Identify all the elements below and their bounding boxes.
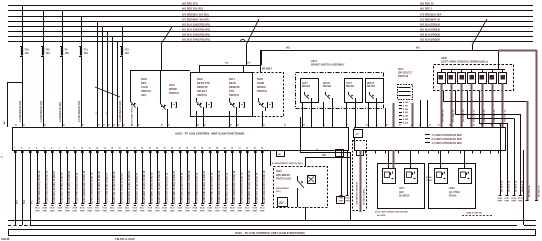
wire F6 load side down to A010 <box>62 56 64 127</box>
switch S009 <box>130 98 132 101</box>
wire bottom bus upper y=220.5 <box>8 220 536 222</box>
svg-text:32: 32 <box>246 148 248 150</box>
svg-text:42-942 GRN 18 (R) 30 RD 18: 42-942 GRN 18 (R) 30 RD 18 <box>91 172 94 204</box>
wire right box to relay 2 <box>410 150 412 168</box>
wire tap from bus at x=22 <box>22 6 24 47</box>
svg-text:J2: J2 <box>204 125 206 127</box>
wire A010 pin 18 output <box>142 150 144 203</box>
terminal end wire 30 <box>231 203 234 205</box>
svg-text:TWR: TWR <box>345 200 350 202</box>
svg-text:J2: J2 <box>438 125 440 127</box>
svg-text:10A: 10A <box>84 52 89 55</box>
svg-text:74.: 74. <box>316 149 320 152</box>
wire A010 pin 19 output <box>150 150 152 203</box>
svg-text:45-983 BLU 18 (R) 30 RD 18: 45-983 BLU 18 (R) 30 RD 18 <box>226 172 229 204</box>
wire riser below right slash <box>472 45 474 50</box>
svg-text:J2: J2 <box>399 125 401 127</box>
wire A010 pin 2 output <box>22 150 24 225</box>
pin connector mark wire 5 <box>44 151 47 153</box>
wire A010 pin 17 output <box>135 150 137 203</box>
svg-text:4 964: 4 964 <box>403 115 409 118</box>
svg-text:42-926 WHT 18 (R) 30 RD 18: 42-926 WHT 18 (R) 30 RD 18 <box>151 172 154 204</box>
wire collector y=114 <box>455 114 521 116</box>
svg-text:6: 6 <box>51 148 52 150</box>
terminal end wire 24 <box>186 203 189 205</box>
svg-text:44-935 GRY 18 (HC) 30 RD 18: 44-935 GRY 18 (HC) 30 RD 18 <box>158 170 161 204</box>
terminal end wire 12 <box>96 203 99 205</box>
wire A010 pin 27 output <box>210 150 212 203</box>
svg-text:A083: A083 <box>449 187 455 190</box>
svg-text:TWR: TWR <box>177 210 182 212</box>
wire console switch 1 drop <box>441 84 443 128</box>
svg-text:PEDAL: PEDAL <box>449 195 457 198</box>
svg-text:BRAKE: BRAKE <box>346 85 355 88</box>
fuse F14 <box>79 46 82 48</box>
wire far right thick drop <box>536 50 538 200</box>
wire A010 pin 24 output <box>187 150 189 203</box>
svg-text:971 RED/WHT 30: 971 RED/WHT 30 <box>420 19 441 22</box>
svg-text:44-962 ORG 18 (HC) 30 RD 18: 44-962 ORG 18 (HC) 30 RD 18 <box>38 170 41 204</box>
pin connector mark wire 30 <box>231 151 234 153</box>
wire 960 horizontal <box>305 157 351 159</box>
wire brake switch drop x=311 <box>311 102 313 127</box>
pin connector mark wire 28 <box>216 151 219 153</box>
wire vertical x=350 to bottom bus <box>350 152 352 221</box>
svg-text:7: 7 <box>59 148 60 150</box>
terminal end far right <box>535 200 538 202</box>
svg-text:LOAD: LOAD <box>426 179 432 182</box>
svg-text:DIFF: DIFF <box>141 82 147 85</box>
svg-text:23: 23 <box>179 148 181 150</box>
svg-text:9: 9 <box>74 148 75 150</box>
svg-text:J2: J2 <box>481 125 483 127</box>
svg-text:10A: 10A <box>46 52 51 55</box>
terminal end wire 13 <box>103 203 106 205</box>
terminal end wire 16 <box>126 203 129 205</box>
svg-text:SWITCH): SWITCH) <box>398 75 408 78</box>
svg-text:40 IMPLEMENT SWITCH (MC): 40 IMPLEMENT SWITCH (MC) <box>272 162 303 165</box>
wire A010 pin 26 output <box>202 150 204 203</box>
svg-text:BRAKE SWITCH ASSEMBLY: BRAKE SWITCH ASSEMBLY <box>311 64 345 67</box>
switch S008 <box>258 98 260 101</box>
wire cluster tap 5 <box>117 42 119 128</box>
svg-text:4 966: 4 966 <box>403 121 409 124</box>
svg-text:SWITCH (HC): SWITCH (HC) <box>276 178 291 181</box>
svg-text:J2: J2 <box>15 125 17 127</box>
switch S071 <box>229 98 231 101</box>
svg-text:J2: J2 <box>168 125 170 127</box>
terminal end wire 29 <box>223 203 226 205</box>
wire bottom bus lower y=225 <box>31 225 517 227</box>
wire A010 pin 15 output <box>120 150 122 203</box>
pin connector mark wire 27 <box>209 151 212 153</box>
pin connector mark wire 18 <box>141 151 144 153</box>
svg-text:SWITCH: SWITCH <box>169 92 179 95</box>
svg-text:960 RED 14 (HC): 960 RED 14 (HC) <box>363 188 366 205</box>
pin right box top x=472 <box>472 150 474 154</box>
svg-text:44-915 BLK 18 (HC) 30 RD 18: 44-915 BLK 18 (HC) 30 RD 18 <box>128 171 131 204</box>
pin connector mark wire 10 <box>81 151 84 153</box>
terminal end wire 19 <box>148 203 151 205</box>
pin right box top x=480 <box>480 150 482 154</box>
wire bus line 972 RED/BLK 30A <box>8 16 533 18</box>
wire switch-group pin x=262 to A010 <box>262 111 264 127</box>
wire crossover slash left <box>161 27 172 44</box>
svg-text:44-915 RED 18 (HC): 44-915 RED 18 (HC) <box>119 100 122 122</box>
pin right box top x=418 <box>418 150 420 154</box>
svg-text:(HC): (HC) <box>276 191 281 193</box>
svg-text:10: 10 <box>81 148 83 150</box>
connector J4 below A010 <box>277 151 285 157</box>
svg-text:TWR: TWR <box>207 210 212 212</box>
svg-text:TWR: TWR <box>50 210 55 212</box>
svg-text:44-922 PUR 18 (HC) 30 RD 18: 44-922 PUR 18 (HC) 30 RD 18 <box>68 170 71 204</box>
wire bus line 952 BLK 30A(GRD) <box>8 26 533 28</box>
svg-text:SELECT: SELECT <box>197 90 207 93</box>
svg-text:45-956 BRN 18 (R) 30 RD 18: 45-956 BRN 18 (R) 30 RD 18 <box>196 172 199 204</box>
svg-text:20: 20 <box>156 148 158 150</box>
wire brake switch drop x=355 <box>355 102 357 127</box>
svg-text:44-914 RED 18 (HC): 44-914 RED 18 (HC) <box>78 100 81 122</box>
wire switch-group pin x=229 to A010 <box>229 111 231 127</box>
svg-text:TWR: TWR <box>147 210 152 212</box>
wire F15 load side down to A010 <box>122 56 124 127</box>
svg-text:SWITCH: SWITCH <box>229 94 239 97</box>
svg-text:J2: J2 <box>103 125 105 127</box>
connector A6 at strip crossing <box>354 130 363 138</box>
svg-text:.1 CAB/PLATFORM 960 RED: .1 CAB/PLATFORM 960 RED <box>431 134 462 137</box>
terminal end wire 6 <box>51 203 54 205</box>
wire console switch 3 drop <box>461 84 463 128</box>
svg-text:961: 961 <box>286 47 291 50</box>
terminal end 36 <box>340 195 343 197</box>
linkage marks S071 <box>239 102 241 108</box>
linkage marks S007 <box>171 102 173 108</box>
wire A010 pin 23 output <box>180 150 182 203</box>
svg-text:45-996 GRY 18 (R) 30 RD 18: 45-996 GRY 18 (R) 30 RD 18 <box>256 172 259 204</box>
wire collector y=101 <box>443 101 527 103</box>
svg-text:41-925 WHT 18 (RC) 30 RD 18: 41-925 WHT 18 (RC) 30 RD 18 <box>143 170 146 204</box>
svg-text:S020: S020 <box>197 78 203 81</box>
pin connector mark wire 8 <box>66 151 69 153</box>
svg-text:931 BLK 30A(GRD) (R1): 931 BLK 30A(GRD) (R1) <box>182 39 210 42</box>
pin connector mark wire 13 <box>104 151 107 153</box>
wire S007 drop <box>160 71 162 101</box>
terminal end wire 10 <box>81 203 84 205</box>
wire A010 pin 30 output <box>232 150 234 203</box>
pin connector mark wire 19 <box>149 151 152 153</box>
pin right box top x=490 <box>490 150 492 154</box>
boundary dashed bottom <box>353 210 367 212</box>
relay K1 in A077 <box>383 169 396 184</box>
wire A010 pin 8 output <box>67 150 69 203</box>
svg-text:J2: J2 <box>449 125 451 127</box>
svg-text:3: 3 <box>29 148 30 150</box>
svg-text:22: 22 <box>279 201 283 205</box>
wire A010 pin 5 output <box>45 150 47 203</box>
wire drop 961 into switch box <box>199 65 201 72</box>
wire riser below middle slash <box>246 45 248 65</box>
svg-text:4 960: 4 960 <box>403 101 409 104</box>
svg-text:J2: J2 <box>161 125 163 127</box>
svg-text:S007: S007 <box>169 84 175 87</box>
pin connector mark wire 15 <box>119 151 122 153</box>
svg-text:42-946 RED 18 (R) 30 RD 18: 42-946 RED 18 (R) 30 RD 18 <box>181 172 184 204</box>
svg-text:41-915 ORG 18 (RC) 30 RD 18: 41-915 ORG 18 (RC) 30 RD 18 <box>263 170 266 204</box>
wire console switch 4 drop <box>471 84 473 128</box>
svg-text:TWR: TWR <box>72 210 77 212</box>
svg-text:J2: J2 <box>263 125 265 127</box>
terminal end wire 25 <box>193 203 196 205</box>
terminal end wire 33 <box>253 203 256 205</box>
terminal end wire 22 <box>171 203 174 205</box>
svg-text:44-982 ORG 18 (HC) 30 RD 18: 44-982 ORG 18 (HC) 30 RD 18 <box>218 170 221 204</box>
svg-text:5: 5 <box>44 148 45 150</box>
terminal end wire 4 <box>36 203 39 205</box>
svg-text:962 RED (R1): 962 RED (R1) <box>182 3 198 6</box>
svg-text:42-966 PNK 18 (R) 30 RD 18: 42-966 PNK 18 (R) 30 RD 18 <box>211 172 214 204</box>
svg-text:J2: J2 <box>284 125 286 127</box>
svg-text:J2: J2 <box>197 125 199 127</box>
svg-text:44-972 TAN 18 (HC) 30 RD 18: 44-972 TAN 18 (HC) 30 RD 18 <box>98 171 101 204</box>
svg-text:J2: J2 <box>366 125 368 127</box>
svg-text:41-945 RED 18 (RC) 30 RD 18: 41-945 RED 18 (RC) 30 RD 18 <box>173 170 176 204</box>
svg-text:972 RED/BLK 30A: 972 RED/BLK 30A <box>420 14 441 17</box>
jumper note labels in right box <box>425 134 430 136</box>
wire DP switch drop 2 <box>427 100 429 127</box>
wire A010 pin 28 output <box>217 150 219 203</box>
svg-text:J2: J2 <box>98 125 100 127</box>
terminal end wire 7 <box>58 203 61 205</box>
wire brake switch drop x=323 <box>323 102 325 127</box>
svg-text:(CLUTCH): (CLUTCH) <box>449 192 460 194</box>
svg-text:(DP SELECT: (DP SELECT <box>398 72 413 75</box>
terminal end wire 34 <box>261 203 264 205</box>
svg-text:A077: A077 <box>399 187 405 190</box>
svg-text:REMOTE: REMOTE <box>197 86 208 89</box>
svg-text:22: 22 <box>171 148 173 150</box>
pin connector mark wire 25 <box>194 151 197 153</box>
svg-text:J2: J2 <box>323 125 325 127</box>
svg-text:28: 28 <box>216 148 218 150</box>
wire bus line 971 RED/WHT 30A <box>8 21 533 23</box>
svg-text:J2: J2 <box>491 125 493 127</box>
svg-text:1: 1 <box>14 148 15 150</box>
pin connector mark wire 14 <box>111 151 114 153</box>
svg-text:961 RED 14: 961 RED 14 <box>538 185 541 197</box>
wire A010 pin 20 output <box>157 150 159 203</box>
svg-text:TWR: TWR <box>95 210 100 212</box>
wire bus line 962 RED <box>8 5 533 7</box>
wire S043 lever drop <box>297 188 299 207</box>
wire riser from crossover slash to switch feed <box>161 44 163 71</box>
crossover hop on bus line 8 <box>241 39 245 41</box>
wire A010 pin 9 output <box>75 150 77 203</box>
pin right box top x=428 <box>428 150 430 154</box>
wire right column 1 <box>500 123 502 195</box>
svg-text:961 RED 1: 961 RED 1 <box>420 8 433 11</box>
terminal end right column 1 <box>499 195 502 197</box>
boundary dashed top <box>353 140 367 142</box>
svg-text:TWR: TWR <box>132 210 137 212</box>
svg-text:TWR: TWR <box>57 210 62 212</box>
svg-text:J2: J2 <box>23 125 25 127</box>
svg-text:41-975 YEL 18 (RC) 30 RD 18: 41-975 YEL 18 (RC) 30 RD 18 <box>113 171 116 204</box>
ground stud icon 22 <box>278 198 288 207</box>
svg-text:TWR: TWR <box>252 210 257 212</box>
wire assembly aux drop thick 1 <box>393 103 395 127</box>
label leader diagonal for cluster <box>95 87 120 97</box>
fuse F6 <box>60 46 63 48</box>
svg-text:17: 17 <box>134 148 136 150</box>
svg-text:TWR: TWR <box>125 210 130 212</box>
svg-text:TWR: TWR <box>222 210 227 212</box>
svg-text:30: 30 <box>231 148 233 150</box>
svg-text:LEFT: LEFT <box>346 83 352 85</box>
terminal end collector right <box>525 200 528 202</box>
terminal end right column 4 <box>519 195 522 197</box>
svg-text:29: 29 <box>224 148 226 150</box>
svg-text:TWR: TWR <box>162 210 167 212</box>
wire right box to relay 1b thick <box>393 150 395 168</box>
svg-text:J2: J2 <box>461 125 463 127</box>
wire S009 feed from bus <box>130 70 190 72</box>
svg-text:TWR: TWR <box>42 210 47 212</box>
wire A010 pin 25 output <box>195 150 197 203</box>
svg-text:963 ORG 18: 963 ORG 18 <box>474 109 476 122</box>
svg-text:TM-781 A-5010: TM-781 A-5010 <box>115 237 135 241</box>
svg-text:(HC): (HC) <box>399 192 404 194</box>
relay K4 in A083 <box>459 169 472 184</box>
wire right column 3 <box>514 119 516 196</box>
pin right box top x=498 <box>498 150 500 154</box>
svg-text:TWR: TWR <box>518 201 523 203</box>
svg-text:931 BLK(GRD)30: 931 BLK(GRD)30 <box>420 39 441 42</box>
svg-text:A010 CAB CONNECTOR 960 RED: A010 CAB CONNECTOR 960 RED <box>375 211 408 214</box>
svg-text:A010 - TF CAB CONTROL UNIT (CA: A010 - TF CAB CONTROL UNIT (CAB FUNCTION… <box>175 132 244 136</box>
svg-text:TWR: TWR <box>170 210 175 212</box>
wire A010 pin 36 <box>341 150 343 195</box>
wire tap from bus at x=43 <box>43 11 45 47</box>
svg-text:RIGHT: RIGHT <box>367 83 375 85</box>
pin connector mark wire 1 <box>14 151 17 153</box>
wire A010 pin 32 output <box>247 150 249 203</box>
pin right box top x=448 <box>448 150 450 154</box>
wire brake switch drop x=368 <box>368 102 370 127</box>
boundary cab harness dashed line left <box>352 140 354 210</box>
terminal end wire 23 <box>178 203 181 205</box>
svg-text:J2: J2 <box>473 125 475 127</box>
fuse F25 <box>41 46 44 48</box>
wire brake switch drop x=376 <box>376 102 378 127</box>
svg-text:BRAKE: BRAKE <box>257 86 266 89</box>
svg-text:41-992 GRN 18 (RC) 30 RD 18: 41-992 GRN 18 (RC) 30 RD 18 <box>233 170 236 204</box>
svg-text:IMPLEMENT: IMPLEMENT <box>276 188 290 190</box>
wire console switch 6 drop <box>492 84 494 128</box>
svg-text:44-925 RED 18 (HC): 44-925 RED 18 (HC) <box>40 100 43 122</box>
svg-text:11: 11 <box>89 148 91 150</box>
terminal end wire 9 <box>73 203 76 205</box>
wire switch-group pin x=236 to A010 <box>236 111 238 127</box>
terminal end wire 5 <box>43 203 46 205</box>
svg-text:TWR: TWR <box>237 210 242 212</box>
svg-text:10A: 10A <box>65 52 70 55</box>
wire brake switch drop x=302 <box>302 102 304 127</box>
wire 74 horizontal <box>300 152 351 154</box>
wire S043 to bottom bus <box>305 207 307 221</box>
svg-text:12: 12 <box>96 148 98 150</box>
fuse F15 <box>120 46 123 48</box>
connector console switch 4 <box>468 73 476 84</box>
terminal end wire 17 <box>133 203 136 205</box>
svg-text:19: 19 <box>149 148 151 150</box>
svg-text:J2: J2 <box>123 125 125 127</box>
switch DP select ladder <box>398 85 413 100</box>
wire A010 pin 13 output <box>105 150 107 203</box>
svg-text:TWR: TWR <box>102 210 107 212</box>
svg-text:13: 13 <box>104 148 106 150</box>
box pedal group A083 <box>429 164 476 209</box>
pin connector mark wire 3 <box>29 151 32 153</box>
svg-text:S008: S008 <box>257 78 263 81</box>
svg-text:CAB WIRING HARNESS: CAB WIRING HARNESS <box>356 181 359 205</box>
svg-text:962 RED 14: 962 RED 14 <box>528 185 531 197</box>
connector console switch 7 <box>499 73 507 84</box>
svg-text:964 ORG 18: 964 ORG 18 <box>483 109 486 122</box>
connector console switch 3 <box>458 73 466 84</box>
wire far right feed corner <box>498 50 537 52</box>
wire cluster tap 2 <box>102 27 104 128</box>
svg-text:LEFT: LEFT <box>302 83 308 85</box>
svg-text:951 BLK 30A(GRD) (R1): 951 BLK 30A(GRD) (R1) <box>182 29 210 32</box>
wire bus line 931 BLK 30A(GRD) <box>8 41 533 43</box>
wire S009 to A010 <box>137 107 139 127</box>
svg-text:J2: J2 <box>346 125 348 127</box>
svg-text:972 RED/BLK 30A (R1): 972 RED/BLK 30A (R1) <box>182 14 209 17</box>
svg-text:K010 - TH CAB CONTROL UNIT (CA: K010 - TH CAB CONTROL UNIT (CAB FUNCTION… <box>235 231 305 235</box>
svg-text:TWR: TWR <box>339 200 344 202</box>
terminal end wire 27 <box>208 203 211 205</box>
pin connector mark wire 12 <box>96 151 99 153</box>
wire riser implement switch to 960 <box>305 157 307 166</box>
svg-text:44-928 RED 18 (HC): 44-928 RED 18 (HC) <box>19 100 22 122</box>
svg-text:41-914 GRN 18 (HC) 30 RD 18: 41-914 GRN 18 (HC) 30 RD 18 <box>83 170 86 204</box>
svg-text:J2: J2 <box>44 125 46 127</box>
pin connector mark wire 21 <box>164 151 167 153</box>
svg-text:TWR: TWR <box>110 210 115 212</box>
svg-text:4 963: 4 963 <box>403 111 409 114</box>
wire tap from bus at x=62 <box>62 11 64 47</box>
svg-text:J2: J2 <box>63 125 65 127</box>
svg-text:961 RED 30A (R1): 961 RED 30A (R1) <box>182 8 203 11</box>
box rear PTO switch group (solid part) <box>191 73 253 117</box>
pin right box top x=460 <box>460 150 462 154</box>
svg-text:PEAK: PEAK <box>426 176 432 179</box>
fuse F28 <box>20 46 23 48</box>
svg-text:J2: J2 <box>138 125 140 127</box>
box pedal group A077 <box>378 164 425 209</box>
svg-text:961: 961 <box>416 47 421 50</box>
wire crossover slash right <box>472 19 487 45</box>
wire DP switch drop 1 <box>420 100 422 127</box>
svg-text:.1 CAB/PLATFORM 961 RED: .1 CAB/PLATFORM 961 RED <box>431 138 462 141</box>
terminal end wire 11 <box>88 203 91 205</box>
svg-text:J2: J2 <box>108 125 110 127</box>
connector console switch 5 <box>479 73 487 84</box>
svg-text:TWR: TWR <box>215 210 220 212</box>
wire A010 pin 1 output <box>15 150 17 225</box>
wire F28 load side down to A010 <box>22 56 24 127</box>
